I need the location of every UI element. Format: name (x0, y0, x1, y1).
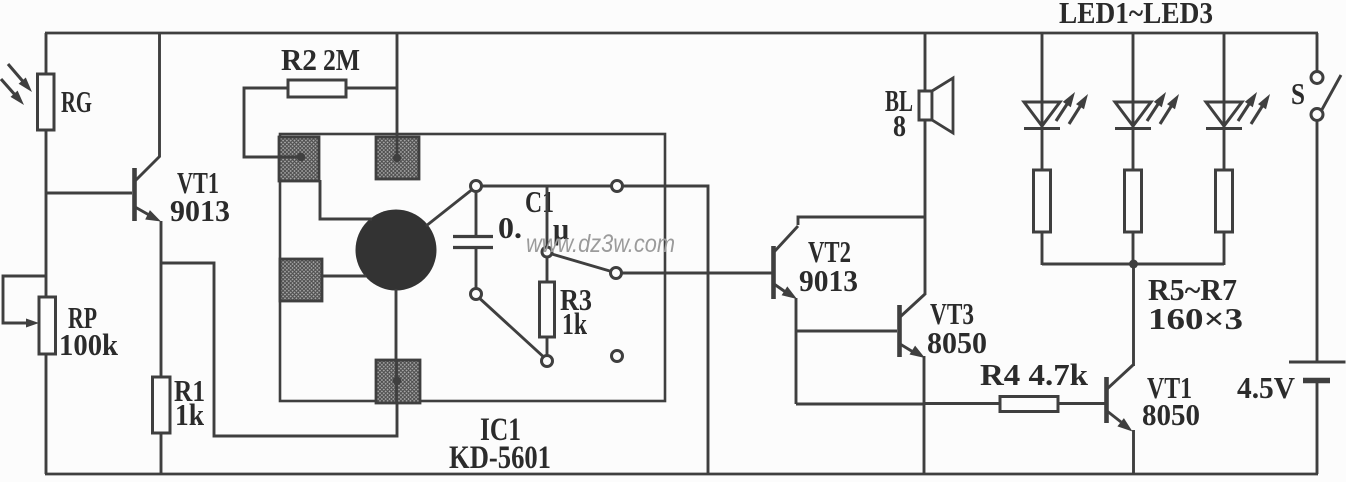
wire T2 to ground rail (623, 186, 709, 474)
light arrows from LED2 (1147, 102, 1159, 121)
resistor R3 (546, 257, 549, 282)
resistor R7 (1216, 170, 1233, 232)
svg-text:8050: 8050 (1142, 397, 1200, 432)
svg-text:www.dz3w.com: www.dz3w.com (526, 230, 675, 258)
switch S (1311, 72, 1323, 84)
resistor R1 (153, 377, 171, 433)
svg-text:8: 8 (893, 108, 906, 143)
svg-text:8050: 8050 (927, 325, 987, 360)
wire pad 3 to chip (322, 275, 366, 278)
light arrows onto RG (8, 64, 24, 83)
svg-text:100k: 100k (59, 327, 119, 362)
potentiometer RP (39, 297, 56, 354)
wire R2 left bracket from pad 1 (244, 88, 301, 157)
wire VT1 right emitter to ground (1132, 430, 1135, 474)
svg-text:S: S (1291, 76, 1305, 111)
wire left rail lower segment (45, 353, 48, 474)
capacitor C1 (475, 192, 478, 237)
wire switch to battery (1316, 121, 1319, 362)
wire T1 to T2 (482, 185, 612, 188)
wire junction to T4 (552, 254, 612, 272)
wire chip to terminal T1 (426, 190, 472, 226)
wire LED1 to R5 (1041, 129, 1044, 171)
wire top rail to LED3 (1223, 33, 1226, 103)
wire LED2 to R6 (1132, 129, 1135, 171)
wire right rail to switch (1316, 33, 1319, 71)
pad 1 bond dot (280, 156, 297, 159)
wire top supply rail (45, 32, 1318, 35)
svg-text:1k: 1k (175, 397, 205, 432)
wire pad 2 to top rail (396, 33, 399, 140)
wire battery to ground rail (1316, 382, 1319, 474)
node ring junction above R3 (542, 247, 552, 257)
wire RP node to VT1 base (46, 192, 132, 195)
wire pad 1 to chip (320, 180, 372, 219)
pad 1 of IC1 (279, 137, 319, 181)
wire T4 to VT2 base (622, 272, 773, 275)
wire LED3 to R7 (1223, 129, 1226, 171)
wire R1 to ground rail (160, 433, 163, 474)
wire emitter branch to IC pad 4 (161, 263, 397, 436)
wire chip to pad 4 (395, 289, 398, 362)
svg-text:C1: C1 (525, 184, 554, 219)
wire VT2 emitter down (795, 298, 798, 404)
resistor R2 (288, 80, 346, 97)
pad 4 of IC1 (376, 360, 420, 403)
wire top rail to LED1 (1041, 33, 1044, 103)
terminal T2 (612, 181, 623, 192)
transistor VT1 (right 8050) (1104, 377, 1109, 423)
wire R2 to pad 2 line (346, 87, 397, 90)
wire VT2 emitter node to R4 node (796, 403, 924, 406)
wire left rail middle segment (45, 129, 48, 298)
wire LED common line (1042, 263, 1224, 266)
wire R5 to common node (1041, 232, 1044, 265)
svg-text:R2: R2 (281, 42, 317, 77)
wire top rail to LED2 (1132, 33, 1135, 103)
COB chip blob of IC1 (356, 210, 437, 291)
wire left rail upper segment (45, 33, 48, 75)
wire VT2 emitter to VT3 base (796, 330, 897, 333)
pad 2 of IC1 (376, 137, 419, 179)
wire VT1 emitter down to R1 (160, 221, 163, 377)
pad 2 bond dot (396, 138, 399, 154)
wire speaker to VT3 collector (924, 120, 927, 295)
light arrows from LED1 (1056, 102, 1068, 121)
transistor VT1 (left 9013) (132, 168, 137, 221)
wire T3 to T5 (480, 299, 544, 357)
svg-text:1k: 1k (562, 306, 588, 341)
resistor R5 (1034, 170, 1051, 232)
terminal T3 (471, 289, 482, 300)
pad 4 bond dot (395, 361, 398, 402)
terminal T6 (612, 351, 623, 362)
svg-text:2M: 2M (323, 42, 360, 77)
svg-text:RG: RG (61, 84, 92, 119)
svg-text:R4 4.7k: R4 4.7k (980, 357, 1089, 392)
LED1 LED symbol (1024, 102, 1060, 126)
wiper arrow of RP (3, 276, 46, 323)
terminal T5 (542, 356, 553, 367)
wire VT2 collector to speaker line (798, 217, 925, 225)
svg-text:0.: 0. (498, 210, 522, 245)
transistor VT3 (8050) (897, 305, 902, 357)
speaker BL (919, 91, 932, 120)
terminal T1 (471, 181, 482, 192)
battery 4.5V (1289, 361, 1346, 364)
wire VT1 collector to top rail (158, 33, 161, 157)
wire VT1 right collector to LED node (1132, 264, 1135, 366)
svg-text:160×3: 160×3 (1148, 301, 1243, 336)
svg-text:9013: 9013 (170, 193, 230, 228)
junction dot at LED common node (1129, 260, 1138, 269)
svg-text:KD-5601: KD-5601 (449, 440, 551, 476)
light arrows from LED3 (1238, 102, 1250, 121)
photoresistor RG (38, 74, 55, 130)
svg-text:LED1~LED3: LED1~LED3 (1059, 0, 1213, 30)
transistor VT2 (9013) (771, 246, 776, 299)
svg-text:4.5V: 4.5V (1237, 370, 1296, 405)
op-amp U1 IC1 KD-5601 outline (280, 134, 665, 401)
wire R6 to common node (1132, 232, 1135, 265)
wire R7 to common node (1223, 232, 1226, 265)
LED2 LED symbol (1115, 102, 1151, 126)
resistor R6 (1125, 170, 1142, 232)
LED3 LED symbol (1206, 102, 1242, 126)
resistor R4 (924, 402, 1001, 405)
pad 3 of IC1 (280, 259, 322, 301)
terminal T4 (611, 268, 622, 279)
wire top rail to speaker (924, 33, 927, 92)
svg-text:9013: 9013 (799, 263, 858, 298)
wire bottom ground rail (45, 473, 1318, 476)
wire node down from T1-T2 line (546, 186, 549, 247)
wire VT3 emitter to ground (923, 356, 926, 474)
